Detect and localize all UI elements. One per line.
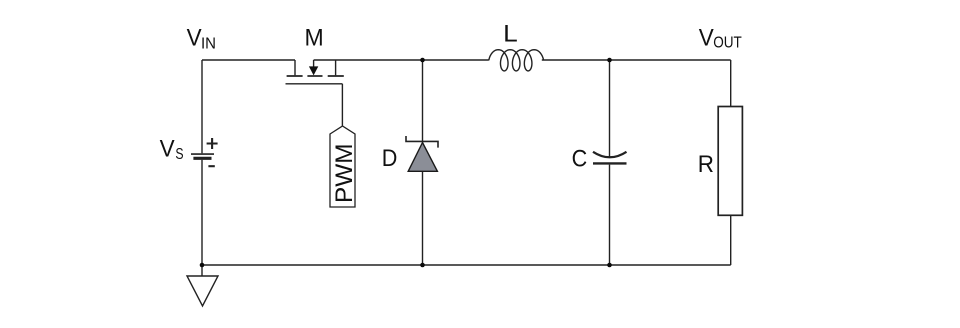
svg-text:S: S: [175, 146, 183, 163]
svg-text:IN: IN: [201, 36, 216, 53]
svg-text:M: M: [305, 25, 324, 52]
svg-text:OUT: OUT: [713, 35, 742, 52]
svg-text:V: V: [160, 136, 175, 163]
svg-text:R: R: [698, 151, 714, 178]
svg-text:V: V: [699, 24, 714, 51]
svg-text:D: D: [382, 145, 398, 172]
svg-text:PWM: PWM: [331, 144, 358, 204]
svg-text:V: V: [187, 25, 202, 52]
svg-text:C: C: [572, 146, 588, 173]
svg-text:L: L: [503, 20, 518, 47]
